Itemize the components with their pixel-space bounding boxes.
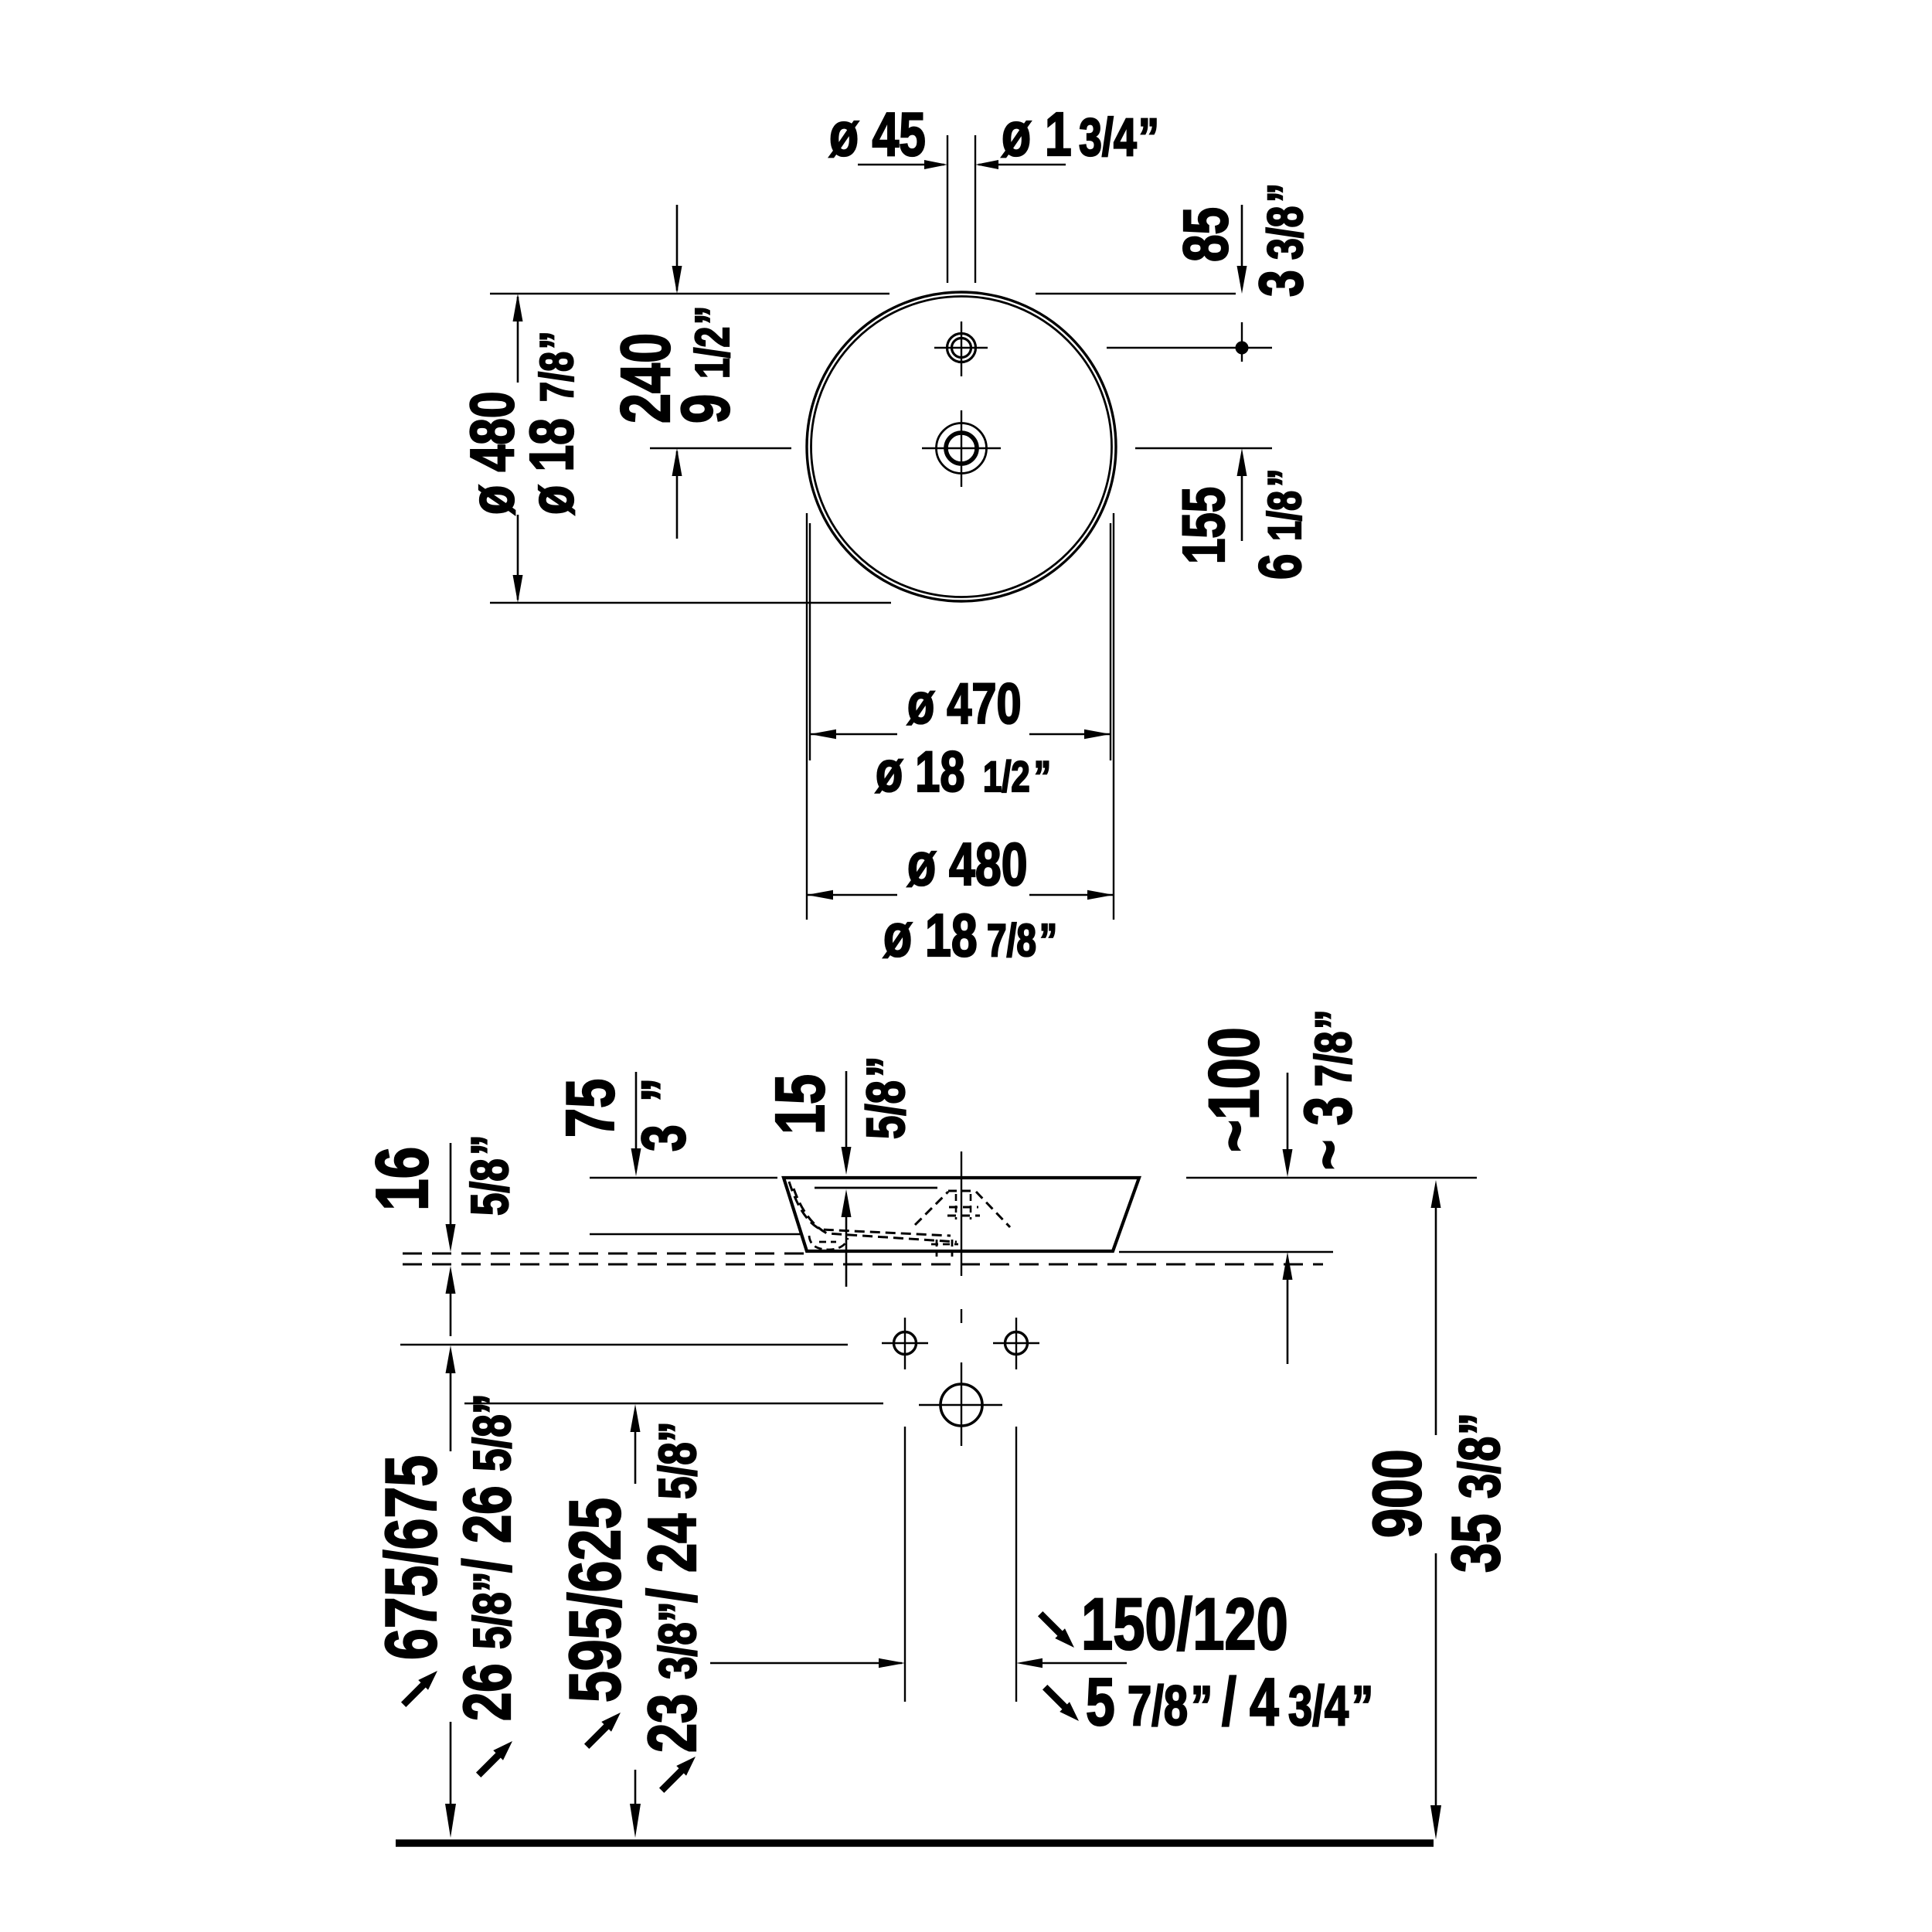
svg-text:7/8: 7/8: [987, 916, 1036, 967]
svg-text:7/8: 7/8: [531, 352, 583, 402]
svg-text:”: ”: [1039, 916, 1057, 967]
svg-text:5/8: 5/8: [461, 1158, 519, 1216]
svg-text:”: ”: [531, 332, 583, 349]
svg-text:”: ”: [648, 1421, 707, 1442]
svg-text:ø 480: ø 480: [458, 391, 527, 515]
svg-text:~100: ~100: [1194, 1027, 1274, 1152]
svg-text:26: 26: [451, 1485, 525, 1543]
svg-text:ø 480: ø 480: [907, 831, 1028, 898]
svg-text:26: 26: [451, 1663, 525, 1721]
svg-text:”: ”: [1258, 183, 1313, 202]
svg-text:”: ”: [461, 1134, 519, 1155]
svg-text:5/8: 5/8: [648, 1442, 707, 1499]
svg-text:3/4: 3/4: [1079, 108, 1137, 168]
svg-text:”: ”: [1304, 1009, 1362, 1029]
svg-text:”: ”: [856, 1056, 917, 1077]
svg-text:1: 1: [1045, 100, 1072, 169]
svg-text:”: ”: [1448, 1413, 1512, 1435]
svg-text:675/675: 675/675: [370, 1455, 451, 1660]
svg-text:”: ”: [463, 1393, 522, 1414]
svg-text:”: ”: [1138, 108, 1159, 168]
svg-text:595/625: 595/625: [554, 1498, 635, 1702]
svg-text:1/2: 1/2: [685, 327, 739, 379]
svg-text:85: 85: [1169, 207, 1241, 262]
svg-text:5/8: 5/8: [463, 1414, 522, 1471]
svg-text:ø 18: ø 18: [876, 740, 965, 804]
svg-text:”: ”: [630, 1078, 699, 1102]
svg-text:9: 9: [668, 394, 743, 423]
svg-text:3/4: 3/4: [1288, 1675, 1349, 1736]
svg-text:5: 5: [1086, 1664, 1115, 1740]
svg-text:1/8: 1/8: [1259, 491, 1311, 541]
svg-text:23: 23: [634, 1694, 710, 1753]
svg-text:16: 16: [361, 1147, 444, 1211]
svg-text:15: 15: [762, 1074, 839, 1134]
svg-text:3/8: 3/8: [1258, 206, 1313, 260]
svg-text:35: 35: [1438, 1514, 1514, 1573]
svg-text:”: ”: [463, 1571, 522, 1592]
svg-text:7/8: 7/8: [1128, 1675, 1188, 1736]
svg-text:6: 6: [1247, 554, 1314, 580]
svg-text:24: 24: [634, 1514, 710, 1573]
svg-text:7/8: 7/8: [1304, 1031, 1362, 1087]
svg-text:”: ”: [1034, 753, 1051, 801]
svg-text:4: 4: [1250, 1664, 1279, 1740]
svg-text:/: /: [634, 1588, 710, 1603]
svg-text:5/8: 5/8: [856, 1080, 917, 1139]
svg-text:ø 18: ø 18: [518, 418, 587, 515]
svg-text:~ 3: ~ 3: [1291, 1097, 1366, 1170]
svg-text:”: ”: [1259, 469, 1311, 487]
svg-text:75: 75: [553, 1079, 628, 1138]
svg-text:ø: ø: [1002, 100, 1031, 169]
svg-text:3: 3: [630, 1124, 699, 1151]
svg-text:5/8: 5/8: [463, 1592, 522, 1649]
svg-text:ø 18: ø 18: [883, 902, 978, 969]
svg-text:3/8: 3/8: [1448, 1437, 1512, 1498]
svg-text:3: 3: [1247, 270, 1316, 297]
svg-text:1/2: 1/2: [983, 753, 1030, 801]
svg-text:155: 155: [1170, 487, 1237, 564]
svg-text:3/8: 3/8: [648, 1622, 707, 1679]
svg-text:”: ”: [1191, 1675, 1213, 1736]
svg-text:900: 900: [1359, 1449, 1435, 1538]
svg-text:”: ”: [1352, 1675, 1373, 1736]
svg-text:150/120: 150/120: [1081, 1583, 1288, 1665]
svg-text:/: /: [451, 1558, 525, 1573]
svg-text:/: /: [1222, 1664, 1236, 1740]
svg-text:”: ”: [648, 1601, 707, 1622]
svg-text:”: ”: [685, 306, 739, 325]
svg-text:ø 45: ø 45: [829, 100, 926, 169]
svg-text:ø 470: ø 470: [907, 672, 1022, 736]
